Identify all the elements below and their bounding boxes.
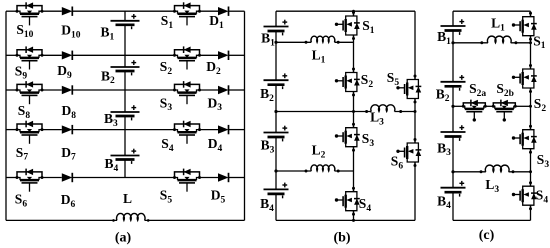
mosfet S8 (a)	[16, 81, 44, 104]
svg-text:S5: S5	[387, 70, 400, 88]
inductor L3 coil (b)	[371, 105, 395, 112]
mosfet S10 (a)	[16, 2, 44, 25]
svg-text:B1: B1	[101, 25, 115, 43]
svg-text:B2: B2	[101, 68, 115, 86]
svg-text:(c): (c)	[479, 228, 495, 243]
mosfet S1 (b)	[335, 11, 360, 40]
circuit (a) right bus wire	[244, 11, 246, 220]
svg-text:S5: S5	[160, 188, 173, 206]
inductor L3 wire (c)	[453, 171, 486, 173]
svg-text:D6: D6	[61, 192, 76, 210]
row 3 wire segments (a)	[6, 89, 17, 91]
svg-text:S2: S2	[361, 72, 374, 90]
battery B3 (c)	[441, 125, 466, 141]
mosfet S1 (c)	[512, 12, 537, 41]
svg-text:D8: D8	[62, 103, 77, 121]
battery B1 (a)	[111, 14, 140, 29]
svg-text:B2: B2	[436, 86, 450, 104]
inductor L1 coil (b)	[311, 36, 335, 42]
svg-text:S2: S2	[160, 59, 173, 77]
diode D8 (a)	[62, 85, 73, 94]
mosfet S7 (a)	[16, 121, 44, 144]
diode D3 (a)	[218, 85, 229, 94]
middle wire with L3 (b)	[276, 111, 371, 113]
svg-text:S2a: S2a	[469, 81, 486, 99]
battery B4 (a)	[111, 149, 140, 164]
mosfet S4 (c)	[512, 181, 537, 210]
svg-text:S3: S3	[362, 131, 375, 149]
inductor L bottom wire (a)	[6, 219, 117, 221]
diode D2 (a)	[218, 51, 229, 60]
svg-text:B3: B3	[437, 140, 451, 158]
diode D5 (a)	[218, 173, 229, 182]
svg-text:S4: S4	[536, 188, 549, 206]
svg-text:S9: S9	[15, 64, 28, 82]
mosfet S4 (b)	[335, 187, 360, 216]
svg-text:S8: S8	[18, 103, 31, 121]
circuit (b) right bus wire	[414, 11, 416, 79]
svg-text:L1: L1	[491, 16, 505, 34]
row 5 wire segments (a)	[6, 177, 17, 179]
mosfet S3 (c)	[512, 125, 537, 154]
circuit (b) bottom wire	[276, 219, 415, 221]
battery B1 (c)	[441, 19, 466, 35]
row 2 wire segments (a)	[6, 54, 17, 56]
svg-text:D2: D2	[206, 59, 221, 77]
battery B1 (b)	[264, 20, 289, 36]
mosfet S3 (b)	[335, 123, 360, 152]
battery B4 (c)	[441, 181, 466, 197]
inductor L1 wire (c)	[453, 42, 488, 44]
svg-text:D4: D4	[208, 136, 223, 154]
svg-text:S1: S1	[533, 33, 546, 51]
mosfet S2 (a)	[173, 46, 201, 69]
diode D4 (a)	[218, 125, 229, 134]
svg-text:D1: D1	[209, 13, 224, 31]
inductor L3 coil (c)	[485, 165, 509, 172]
diode D7 (a)	[62, 125, 73, 134]
svg-text:S6: S6	[15, 192, 28, 210]
mosfet S4 (a)	[173, 121, 201, 144]
svg-text:S1: S1	[362, 18, 375, 36]
svg-text:S6: S6	[391, 154, 404, 172]
mosfet S5 (a)	[173, 169, 201, 192]
svg-text:D7: D7	[61, 145, 76, 163]
mosfet S2 (c)	[512, 64, 537, 93]
middle wire (c)	[453, 105, 463, 107]
svg-text:B2: B2	[260, 86, 274, 104]
circuit (c) right switch bus wire	[530, 11, 532, 17]
inductor L2 wire (b)	[276, 170, 311, 172]
svg-text:L3: L3	[370, 110, 384, 128]
svg-text:D10: D10	[61, 23, 80, 41]
battery B2 (a)	[111, 60, 140, 75]
svg-text:(b): (b)	[333, 231, 350, 246]
svg-text:S10: S10	[16, 22, 33, 40]
mosfet S2 (b)	[335, 68, 360, 97]
svg-text:S1: S1	[161, 13, 174, 31]
battery B3 (b)	[264, 126, 289, 142]
mosfet S3 (a)	[173, 81, 201, 104]
diode D9 (a)	[62, 51, 73, 60]
svg-text:S4: S4	[359, 196, 372, 214]
circuit (c) top wire	[453, 10, 531, 12]
diode D1 (a)	[218, 7, 229, 16]
svg-text:L2: L2	[312, 143, 326, 161]
circuit (b) top wire	[276, 10, 415, 12]
diode D10 (a)	[62, 7, 73, 16]
svg-text:B4: B4	[260, 196, 274, 214]
mosfet S5 (b)	[396, 75, 421, 104]
inductor L1 coil (c)	[487, 36, 511, 43]
circuit (b) left battery bus wire	[275, 11, 277, 26]
svg-text:S2b: S2b	[496, 81, 514, 99]
svg-text:L1: L1	[312, 48, 326, 66]
svg-text:D3: D3	[208, 95, 223, 113]
svg-text:L3: L3	[485, 177, 499, 195]
circuit (a) middle battery-string bus wire	[124, 11, 126, 21]
battery B4 (b)	[264, 183, 289, 199]
svg-text:L: L	[123, 191, 132, 206]
svg-text:D5: D5	[211, 188, 226, 206]
svg-text:D9: D9	[57, 63, 72, 81]
row 4 wire segments (a)	[6, 129, 17, 131]
svg-text:B3: B3	[104, 111, 118, 129]
mosfet S2a (c)	[462, 100, 487, 122]
diode D6 (a)	[62, 173, 73, 182]
mosfet S6 (a)	[16, 169, 44, 192]
svg-text:S7: S7	[16, 145, 29, 163]
battery B2 (b)	[264, 73, 289, 89]
inductor L coil (a)	[117, 213, 145, 220]
row 1 wire segments (a)	[6, 10, 17, 12]
svg-text:S4: S4	[161, 136, 174, 154]
battery B3 (a)	[111, 105, 140, 120]
inductor L1 wire (b)	[276, 41, 311, 43]
svg-text:B1: B1	[261, 31, 275, 49]
mosfet S9 (a)	[16, 46, 44, 69]
svg-text:B3: B3	[261, 138, 275, 156]
svg-text:B4: B4	[437, 193, 451, 211]
svg-text:S2: S2	[534, 96, 547, 114]
svg-text:S3: S3	[537, 152, 550, 170]
inductor L2 coil (b)	[311, 165, 335, 171]
circuit (a) left bus wire	[5, 11, 7, 220]
mosfet S1 (a)	[173, 2, 201, 25]
svg-text:(a): (a)	[115, 231, 132, 246]
circuit (b) middle switch bus wire	[353, 11, 355, 16]
mosfet S2b (c)	[492, 100, 517, 122]
mosfet S6 (b)	[396, 138, 421, 167]
battery B2 (c)	[441, 75, 466, 91]
circuit (c) bottom wire	[453, 219, 531, 221]
svg-text:S3: S3	[160, 95, 173, 113]
circuit (c) left battery bus wire	[452, 11, 454, 26]
